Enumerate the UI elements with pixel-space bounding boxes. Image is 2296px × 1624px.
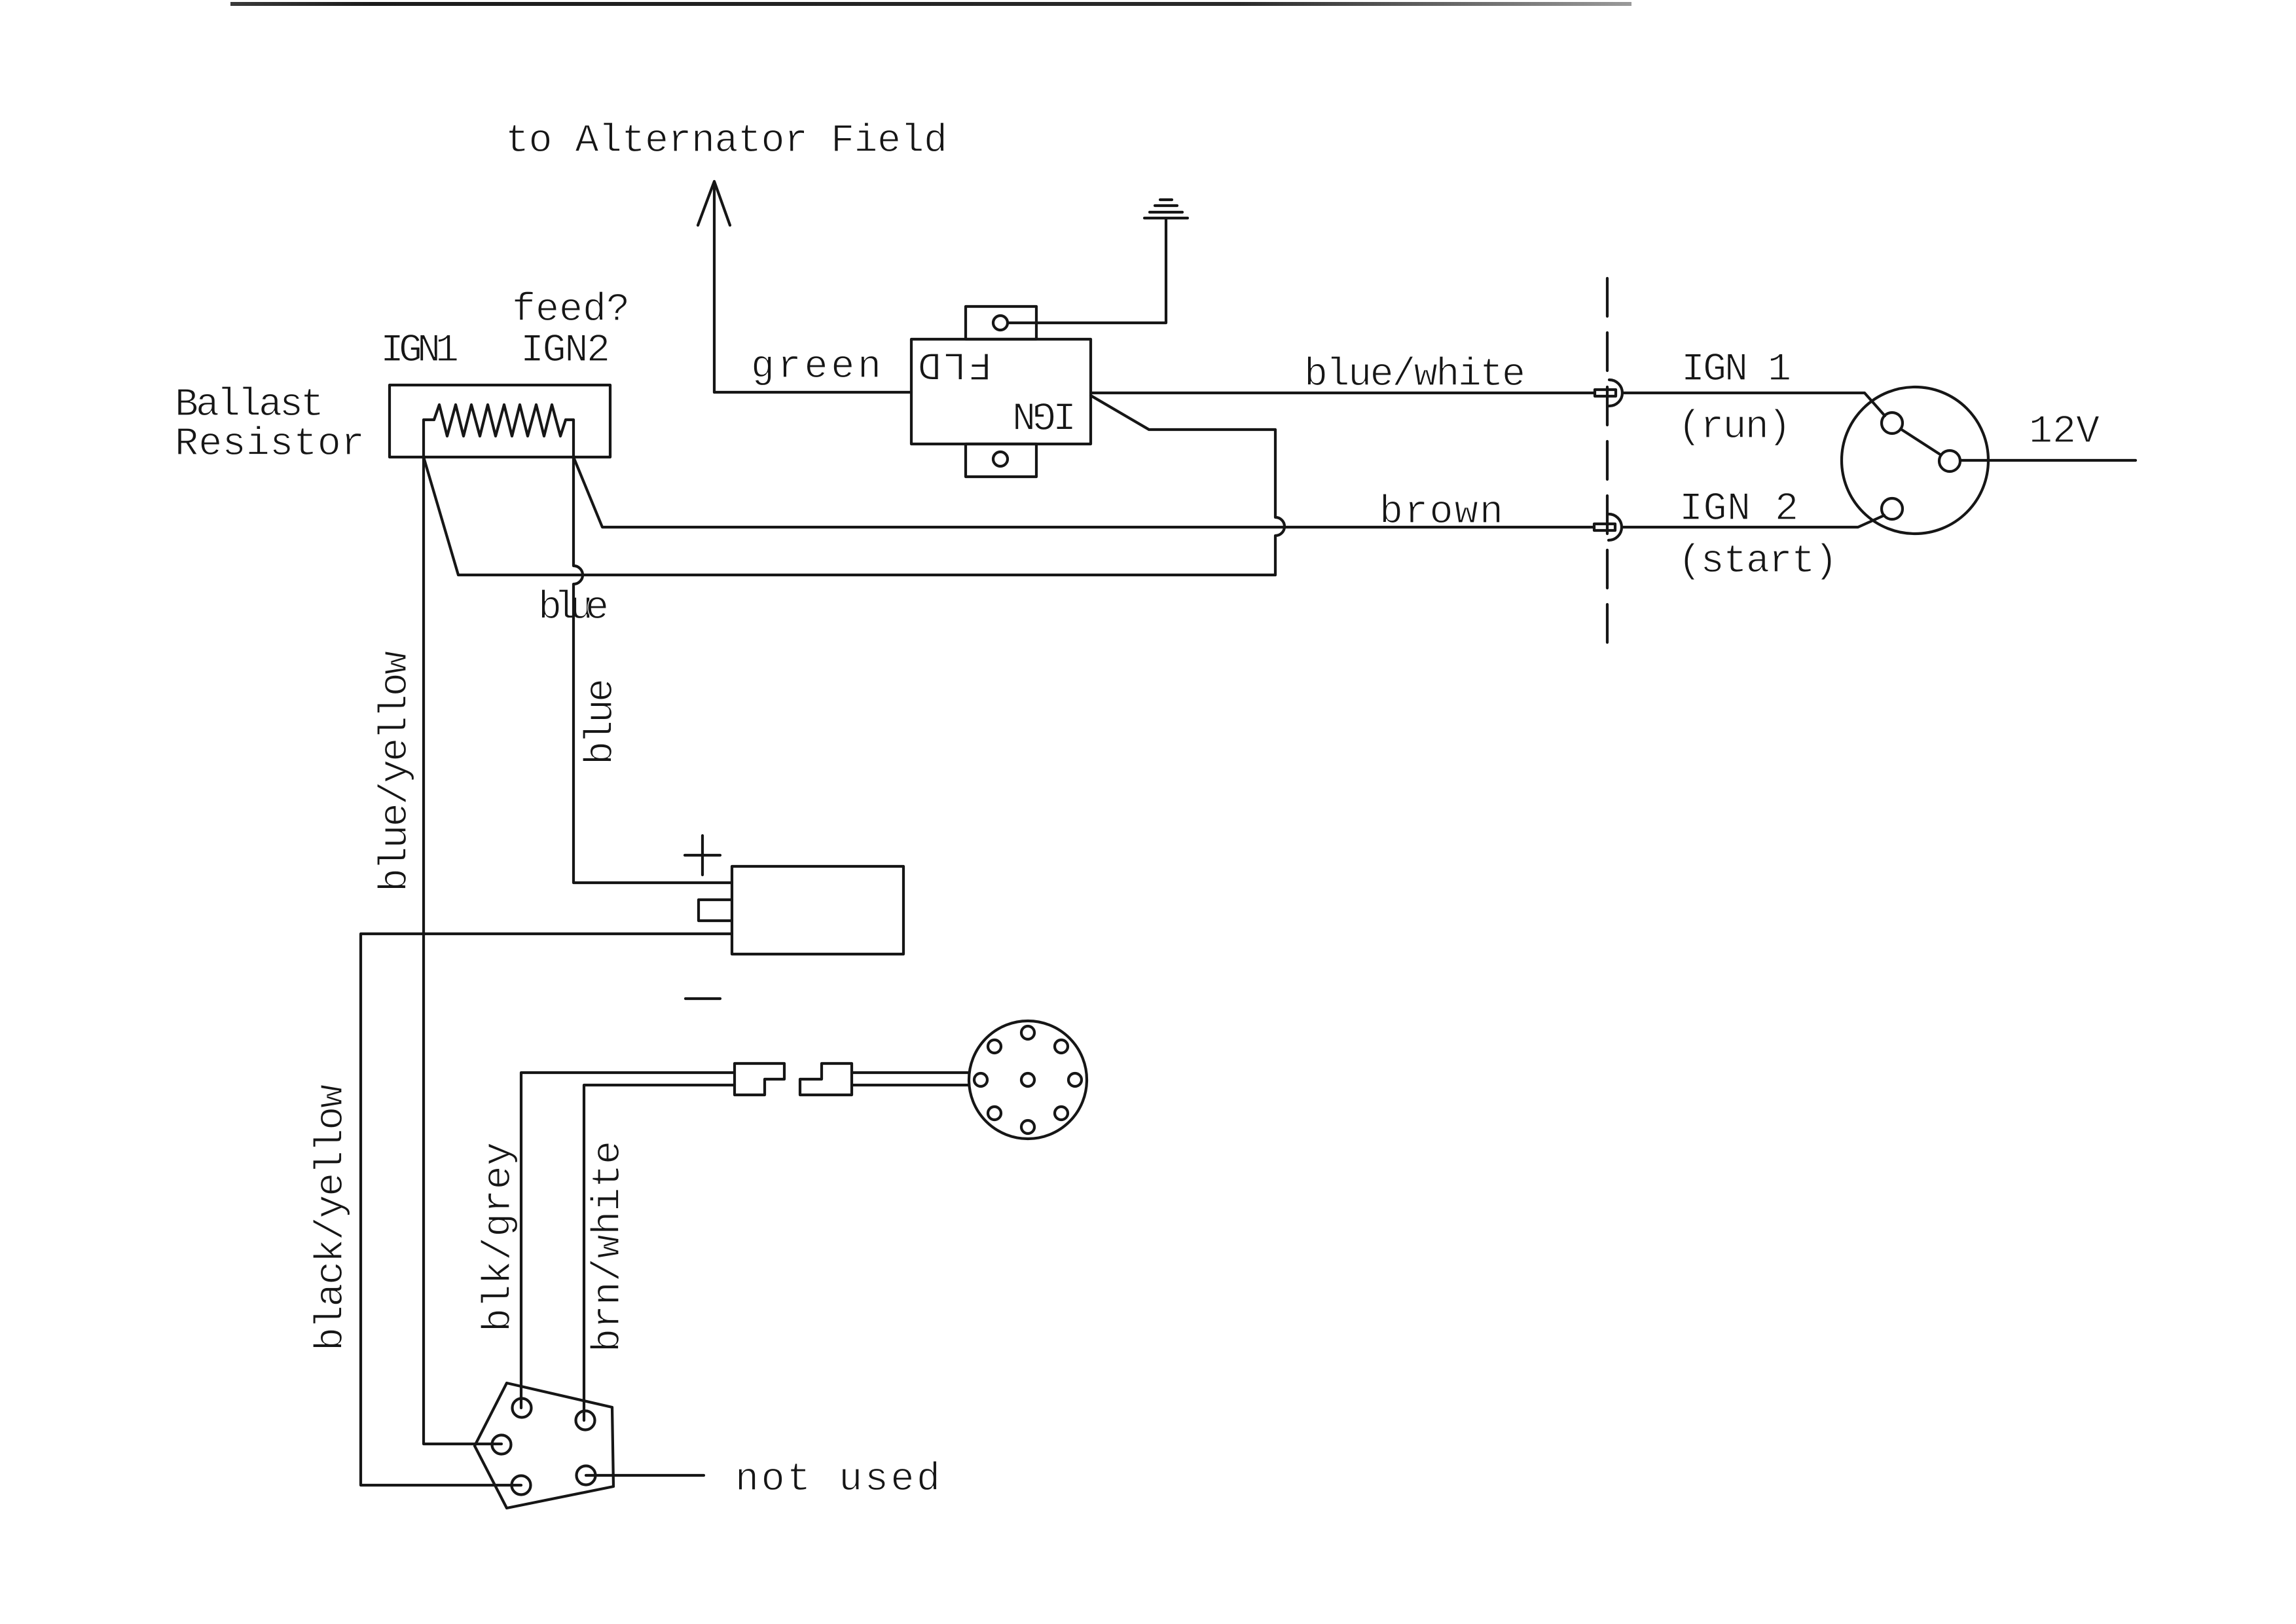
svg-text:12V: 12V [2029,410,2100,454]
svg-text:(run): (run) [1678,405,1791,450]
svg-text:FLD: FLD [918,341,992,386]
svg-text:blue: blue [579,678,624,765]
svg-text:green: green [751,345,881,390]
svg-text:Resistor: Resistor [175,422,365,467]
svg-text:IGN: IGN [1012,391,1076,435]
svg-text:IGN 2: IGN 2 [1679,487,1798,532]
svg-text:to Alternator Field: to Alternator Field [505,119,947,164]
svg-text:feed?: feed? [512,288,630,333]
svg-text:blk/grey: blk/grey [477,1142,522,1332]
svg-text:black/yellow: black/yellow [310,1084,354,1351]
svg-text:blue/yellow: blue/yellow [374,651,418,892]
svg-text:blue/white: blue/white [1304,353,1525,397]
svg-text:IGN1: IGN1 [380,329,459,373]
svg-text:IGN 1: IGN 1 [1681,348,1791,392]
svg-text:Ballast: Ballast [175,383,324,428]
svg-text:IGN2: IGN2 [520,329,610,373]
svg-text:(start): (start) [1678,540,1838,584]
svg-text:brn/white: brn/white [587,1141,631,1352]
